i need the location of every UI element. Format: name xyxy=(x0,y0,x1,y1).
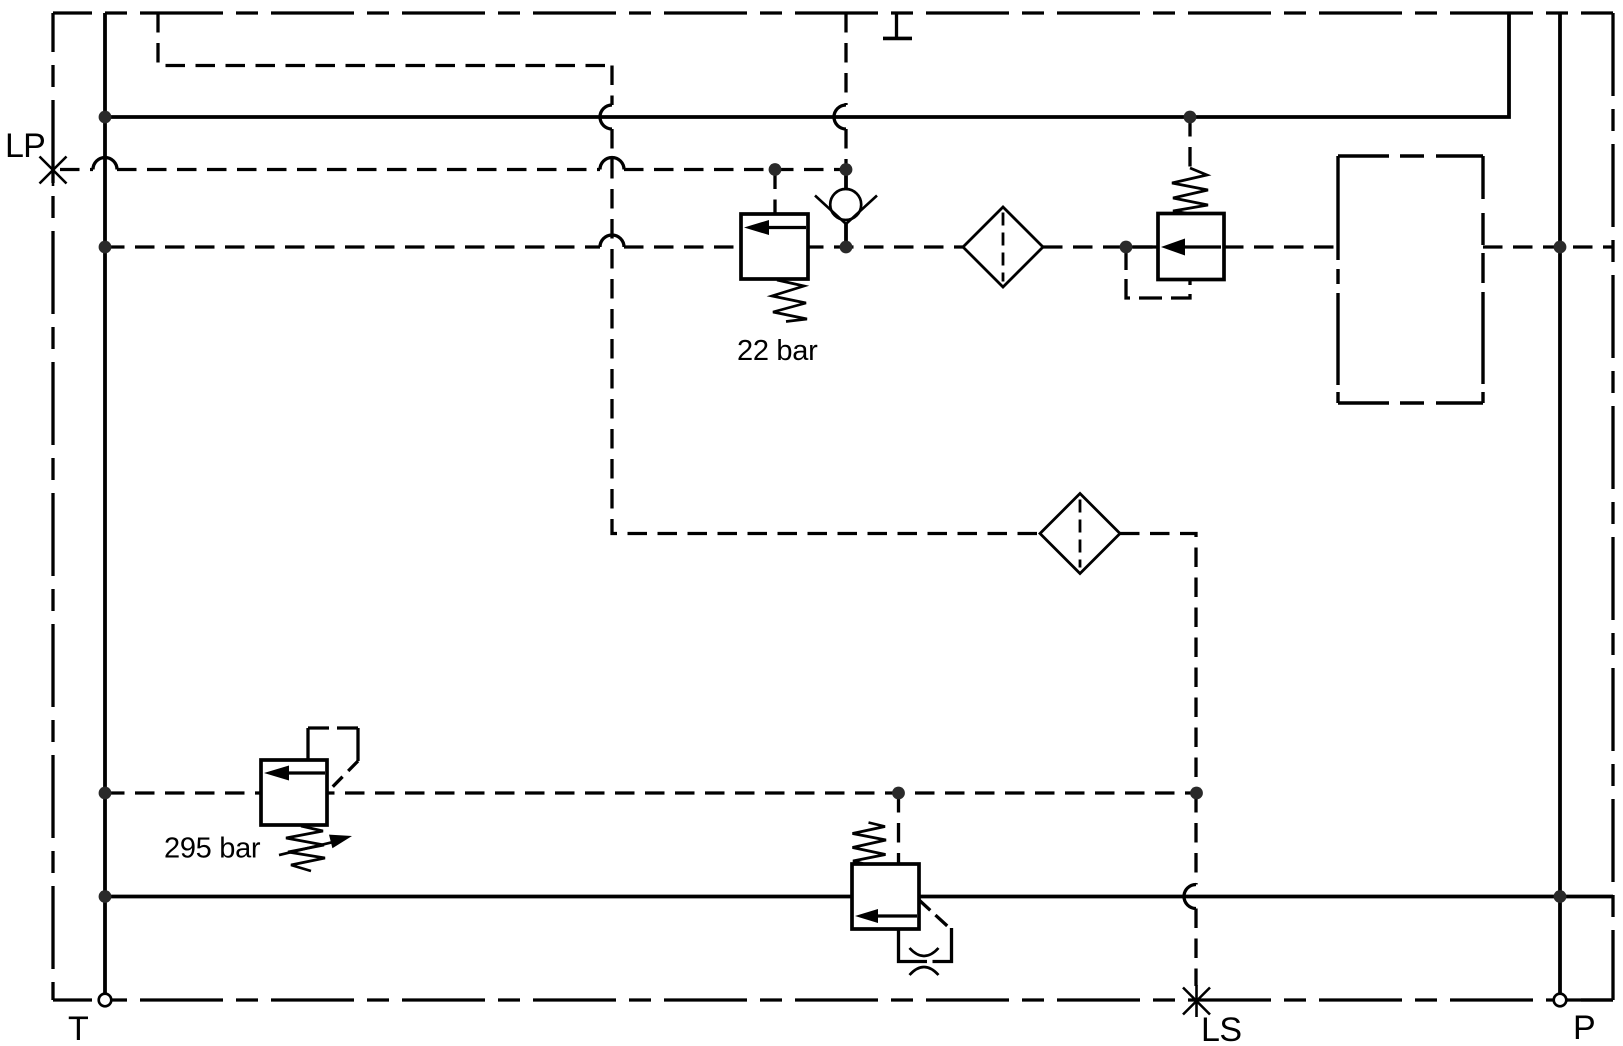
svg-text:T: T xyxy=(68,1010,89,1046)
svg-text:LS: LS xyxy=(1201,1011,1242,1046)
svg-text:295 bar: 295 bar xyxy=(164,833,261,865)
svg-text:LP: LP xyxy=(5,127,45,165)
svg-text:22 bar: 22 bar xyxy=(737,335,818,367)
svg-text:P: P xyxy=(1573,1009,1596,1046)
